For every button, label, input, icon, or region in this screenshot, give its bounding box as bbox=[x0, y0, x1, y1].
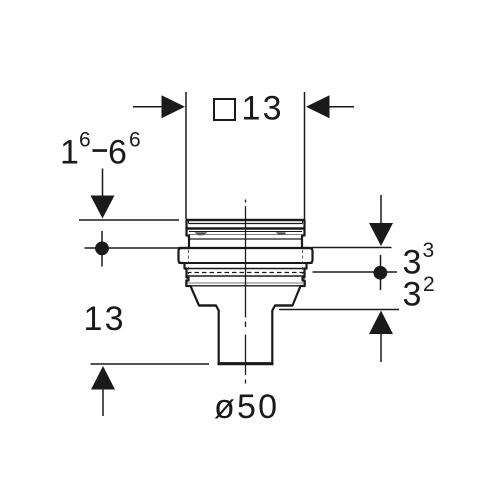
svg-text:3: 3 bbox=[423, 239, 437, 262]
svg-text:3: 3 bbox=[403, 276, 424, 314]
svg-text:2: 2 bbox=[423, 273, 437, 296]
svg-text:6: 6 bbox=[108, 134, 129, 172]
svg-text:13: 13 bbox=[242, 90, 284, 128]
svg-text:6: 6 bbox=[129, 128, 143, 151]
svg-text:1: 1 bbox=[60, 134, 81, 172]
svg-text:13: 13 bbox=[84, 300, 126, 338]
svg-text:6: 6 bbox=[79, 128, 93, 151]
svg-text:ø50: ø50 bbox=[214, 388, 279, 426]
